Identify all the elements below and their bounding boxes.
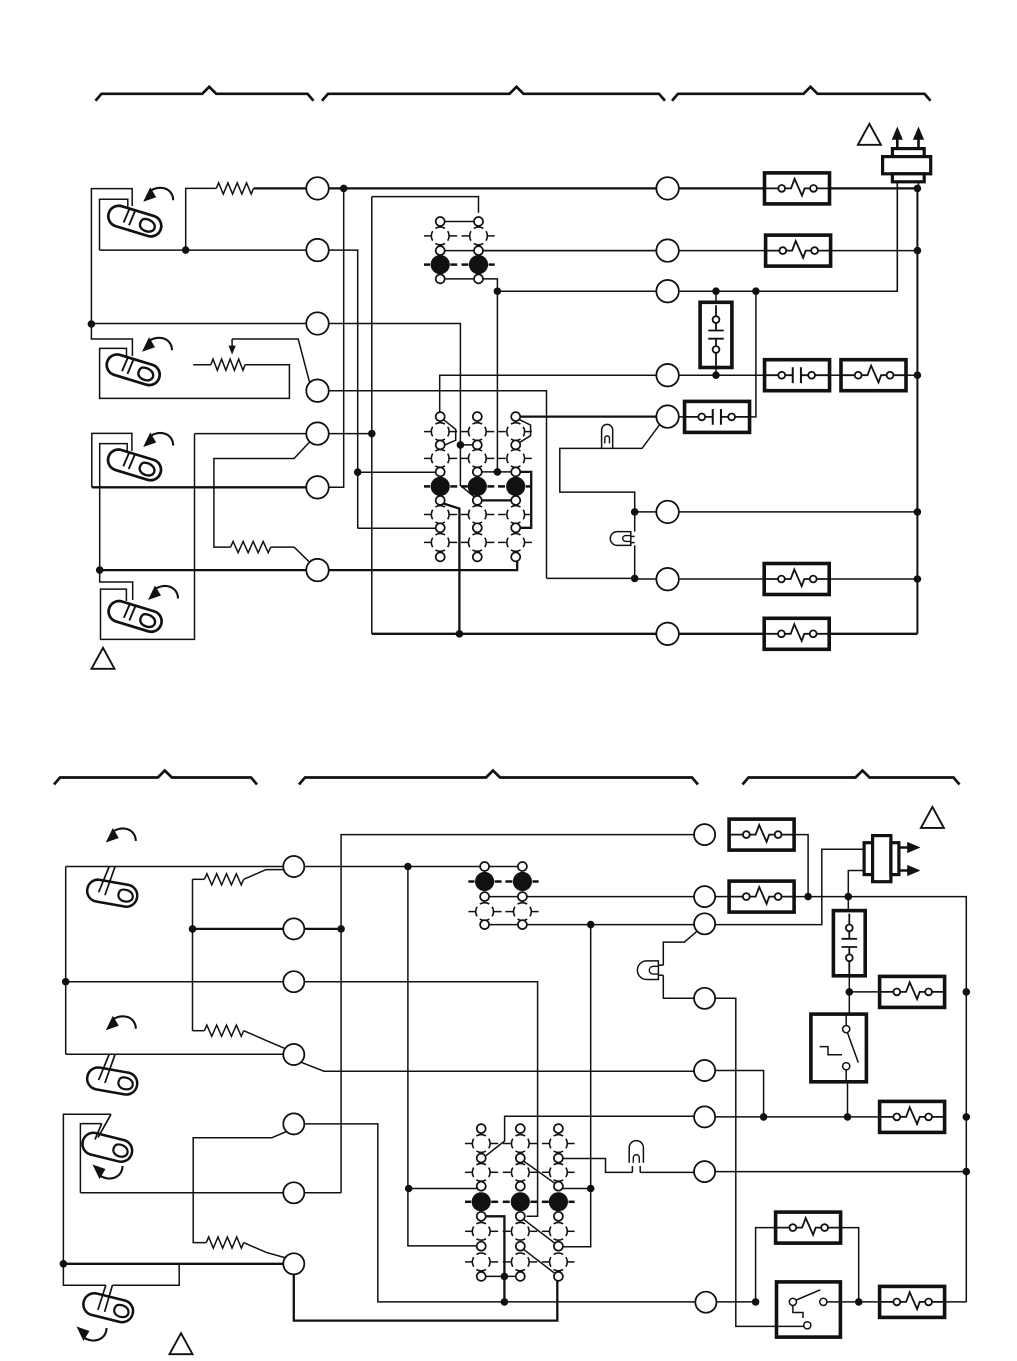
position bar row 3 [424, 485, 430, 488]
resistor heat anticipator (bottom) [193, 878, 205, 880]
triangle note 2 (top right) [858, 124, 881, 145]
wire BT7 riser down and over to c3 small6 [294, 1274, 558, 1320]
open contact (dashed, bottom) [472, 1163, 490, 1181]
arrow MS1 rotation [149, 188, 173, 201]
wire RT3 row to transformer lead [497, 290, 656, 292]
position bar row 4 [424, 514, 431, 516]
terminal BT6 [283, 1182, 304, 1203]
open contact (dashed) [507, 534, 525, 552]
open contact (dashed) [431, 450, 449, 468]
wire box5 right down to BT8 row [841, 1228, 859, 1302]
wire c2 small3 to c3 small3 [477, 471, 515, 473]
wire R circuit: T1 row from resistor to RT1 and on to transformer junction [254, 187, 307, 189]
diag arm c2 small2 to c3 small3 [524, 1161, 557, 1184]
wire changeover box to RTB6 row [847, 1082, 849, 1117]
terminal RT3 [656, 280, 678, 302]
wire BT1 row (mercury switch B1 to terminal and wafer) [66, 866, 284, 868]
wire cap box right side up to RT3 row [750, 291, 756, 417]
wire resistor diag to BT7 [244, 1243, 285, 1258]
wire riser from BT1 dot to c1 small3 and c1 small5 [408, 867, 477, 1246]
wire RT4 row left end down into c1 small1 [440, 375, 657, 416]
wire anticipator riser [192, 879, 194, 1030]
brace group 5 (subbase section, bottom) [299, 771, 698, 785]
junction dot RT6 row left [631, 509, 638, 516]
junction dot RTB2 row at transformer lead [845, 893, 852, 900]
potentiometer heat anticipator adjust (top) [211, 359, 245, 370]
position bar row 1 [424, 431, 431, 433]
junction dot heat relay row (bottom) [846, 989, 853, 996]
mercury switch MSB3 electrode slash outer [98, 1114, 111, 1137]
wire RTB3 arm to pilot lamp LB3 [663, 931, 697, 965]
fan switch B: small row 1 on BT1 line [480, 862, 489, 871]
junction dot RTB6 row at RTB5 branch [760, 1114, 767, 1121]
terminal RTB5 [694, 1060, 715, 1081]
terminal BT8 [695, 1292, 716, 1313]
wire RT6 row [635, 511, 657, 513]
junction dot cool wafer small3 row [494, 469, 501, 476]
mercury bulb MSB1 [85, 878, 138, 908]
open contact (dashed) [507, 423, 525, 441]
relay box on RT2 row [766, 235, 831, 266]
wire BT6 row [80, 1192, 283, 1194]
fan switch B: open position row [468, 911, 475, 913]
junction dot RT4 row relay bottom [713, 372, 720, 379]
wire RT5 to cap box [679, 416, 685, 418]
wire BT8 row [504, 1301, 695, 1303]
bracket c3 small3 to c3 small5 (heavy) [516, 472, 532, 528]
junction dot RT1 right rail [914, 185, 921, 192]
junction dot T5 row [369, 430, 376, 437]
mercury switch MS2 inner electrode wire [100, 348, 290, 398]
pilot lamp L1 (top) [602, 424, 613, 443]
pot wiper arrow [231, 339, 233, 349]
wire relay box bottom to junction [848, 976, 850, 992]
wire c1 small4 to small6 junction riser (heavy) [481, 1216, 504, 1302]
terminal RTB1 [694, 824, 715, 845]
relay box 5 (above bottom changeover) [776, 1212, 841, 1243]
brace group 1 (thermostat section, top) [96, 87, 314, 101]
mercury switch MSB1 electrode slashes [99, 867, 110, 893]
terminal RT1 [656, 177, 678, 199]
terminal T4 [306, 380, 328, 402]
mercury bulb MS4 [106, 598, 164, 634]
mercury switch MSB4 electrode slash 2 [105, 1285, 113, 1312]
wire riser to c3 small5 bracket [563, 925, 591, 1247]
junction dot RT8 row at c1 small4 branch [456, 631, 463, 638]
arrow MSB4 rotation (below) [83, 1328, 107, 1341]
transformer TRB leads [848, 871, 864, 911]
junction dot RTB3 row riser [587, 921, 594, 928]
open contact (dashed, bottom) [511, 1163, 529, 1181]
wire T6 heat wire up-left rail to T1 junction [92, 486, 306, 488]
open contact (dashed, bottom) [550, 1163, 568, 1181]
position bar row 4 (bottom) [465, 1230, 472, 1232]
mercury switch MS1 outer electrode wire [91, 189, 132, 325]
wire lamp L2 to RT7 row [634, 512, 636, 532]
terminal RT7 [656, 568, 678, 590]
wire c2 small4 to c3 small4 (heavy) [477, 499, 515, 501]
wire T4 feed to RT7 row [547, 577, 635, 579]
closed contact (filled, bottom) [472, 1192, 491, 1211]
open contact (dashed) [468, 506, 486, 524]
terminal RT2 [656, 239, 678, 261]
junction dot RT2 right rail [914, 247, 921, 254]
wire corner to c1 small5 [358, 527, 436, 529]
fan switch wafer: small contact row 2 wired to RT2 [440, 250, 656, 252]
brace group 2 (subbase section, top) [322, 87, 665, 101]
transformer TRB (bottom) [864, 836, 899, 882]
position bar row 2 (bottom) [465, 1171, 472, 1173]
junction dot BT1 row riser [405, 863, 412, 870]
fan switch B: filled position row [468, 880, 474, 883]
open contact (dashed, bottom) [472, 1253, 490, 1271]
brace group 6 (system section, bottom) [743, 771, 960, 785]
wire BT8 row right of box to relay box 6 [840, 1301, 880, 1303]
transformer TR1 (24V, top) [883, 149, 931, 182]
junction dot RT6 at right rail [914, 509, 921, 516]
closed contact (filled) [431, 477, 450, 496]
terminal RT4 [656, 364, 678, 386]
relay box right of relay (bottom) [849, 991, 880, 993]
pilot lamp L2 (top, sideways) [610, 532, 631, 546]
open contact (dashed) [431, 534, 449, 552]
open contact (dashed) [431, 423, 449, 441]
brace group 4 (thermostat section, bottom) [54, 771, 257, 785]
junction dot left rail at BT3 [62, 978, 69, 985]
terminal T7 [306, 559, 328, 581]
position bar row 2 [424, 457, 431, 459]
fan switch wafer: small contact row 1 [440, 221, 478, 223]
terminal BT5 [283, 1113, 304, 1134]
fan switch B: small row 3 wired to RTB3 row [485, 924, 591, 926]
junction dot BT8 row at riser [501, 1299, 508, 1306]
open contact (dashed, bottom) [550, 1135, 568, 1153]
wire BT5 row right riser [304, 1124, 504, 1302]
terminal RT8 [656, 623, 678, 645]
mercury switch MS4 inner electrode wire [101, 434, 195, 640]
mercury switch MS4 electrode wire from T7 junction [100, 570, 133, 600]
diag arm c2 small4 to c3 small5 [524, 1219, 557, 1244]
arrow MS3 rotation [149, 433, 173, 446]
terminal BT4 [283, 1044, 304, 1065]
open contact (dashed, bottom) [550, 1222, 568, 1240]
contact box on RT4 row (o-||-o) [765, 360, 830, 391]
wire RTB6 row to relay box 4 [715, 1116, 880, 1118]
mercury switch MSB3 outer electrode wire [63, 1114, 111, 1264]
wire lamp LB3 to RTB4 [663, 975, 694, 998]
wire BT4 diag to RTB5 row [301, 1062, 694, 1071]
wire c1 small6 to c2 small6 [481, 1275, 520, 1277]
mercury switch MSB4 electrode wire right [112, 1264, 179, 1285]
fan switch B: small row 2 wired to RTB2 [485, 896, 694, 898]
wire riser BT2/BT6 to RTB1 row [341, 835, 694, 1193]
brace group 3 (system section, top) [672, 87, 931, 101]
wire branch to c1 small3 [358, 471, 436, 473]
terminal circle overlays (redraw above wires) [306, 177, 328, 199]
terminal BT7 [283, 1253, 304, 1274]
relay box 6 (bottom right) [880, 1286, 945, 1317]
wire BT3 row to c2 small4 riser [66, 981, 284, 983]
wire riser from RT3 elbow down to cool wafer row small3 [496, 291, 498, 472]
junction dot BT8 row at box5 right [855, 1299, 862, 1306]
arrow MSB2 rotation [112, 1016, 136, 1029]
open contact (dashed) [468, 450, 486, 468]
wire BT7 row (heavy) [63, 1263, 283, 1265]
terminal T3 [306, 312, 328, 334]
mercury bulb MSB3 [80, 1131, 134, 1165]
wire BT5 arm and riser to BT8 row [193, 1132, 286, 1243]
resistor cool anticipator (top) [231, 542, 271, 553]
wire branch to c1 small3 [409, 1188, 477, 1190]
wire c3 small3 to riser dot [563, 1188, 591, 1190]
relay contact box vertical (bottom) [833, 911, 865, 976]
wire RTB4 to bottom changeover box [715, 998, 776, 1326]
terminal RTB7 [694, 1161, 715, 1182]
open contact (dashed, bottom) [511, 1253, 529, 1271]
wire vertical fan feed x=371.8 [371, 197, 373, 434]
triangle note 3 (bottom centre) [170, 1333, 193, 1354]
junction dot RT3 row left end [494, 288, 501, 295]
wire T4 row to fan-switch feed corner [329, 391, 547, 579]
junction dot RT3 row relay branch [713, 288, 720, 295]
transformer TR1 leads down [896, 182, 898, 291]
mercury switch MSB3 electrode slash inner [95, 1124, 102, 1140]
relay box on RT1 row (heat) [765, 173, 830, 204]
junction dot BT8 row at box5 left [752, 1299, 759, 1306]
wire RT4 row segments [679, 374, 765, 376]
changeover switch box (bottom-most) [777, 1282, 841, 1337]
terminal T5 [306, 422, 328, 444]
wire T2 riser to fan wafer contacts [329, 250, 358, 528]
wire box6 to right rail corner [944, 1301, 966, 1303]
wire T5 row and riser to RT8 row [195, 433, 307, 435]
wire MS1 to T2 with anticipator branch [100, 249, 307, 251]
junction dot anticipator branch [182, 247, 189, 254]
junction dot BT2 row left [189, 926, 196, 933]
terminal RTB6 [694, 1106, 715, 1127]
terminal BT2 [283, 918, 304, 939]
arrow MS2 rotation [148, 338, 172, 351]
junction dot T2 riser to c1 small3 [354, 469, 361, 476]
wire BT4 row [66, 1053, 284, 1055]
triangle note 4 (bottom right) [921, 807, 944, 828]
junction dot small6 row [501, 1273, 508, 1280]
relay box RTB1 row [729, 819, 794, 850]
junction dot T7 left [96, 567, 103, 574]
relay box on RT7 row [764, 564, 829, 595]
arrow MSB1 rotation [112, 828, 136, 841]
resistor cool anticipator 3 (bottom) [206, 1237, 243, 1248]
position bar row 1 (bottom) [465, 1143, 472, 1145]
terminal RTB3 [694, 913, 715, 934]
relay box RTB2 row [715, 896, 730, 898]
system switch: c1 small1 bypass arm to c1 small2 [444, 420, 456, 445]
open contact (dashed, bottom) [472, 1222, 490, 1240]
junction dot left rail at T3 [88, 321, 95, 328]
junction dot BT7 row left [60, 1261, 67, 1268]
system switch: c3 small1 bypass arm to c3 small2 [520, 420, 531, 443]
terminal T2 [306, 239, 328, 261]
mercury bulb MS2 [104, 351, 162, 387]
mercury switch MS3 inner electrode wire [100, 444, 128, 570]
mercury switch MSB2 electrode slashes [99, 1054, 110, 1080]
terminal RT5 [656, 405, 678, 427]
closed contact (filled, bottom) [511, 1192, 530, 1211]
position bar row 5 [424, 541, 431, 543]
junction dot RT4 right rail [914, 372, 921, 379]
junction dot right rail RTB7 row [963, 1168, 970, 1175]
closed contact (filled, bottom) [549, 1192, 568, 1211]
open contact (dashed, bottom) [511, 1135, 529, 1153]
changeover switch box (bottom middle) [848, 992, 850, 1014]
position bar row 3 (bottom) [465, 1201, 471, 1204]
wire pot wiper to T4 switch arm [232, 339, 310, 383]
wire RTB3 row to transformer lead [591, 924, 694, 926]
wire RT5 arm to pilot lamp and RT6 branch [560, 425, 660, 512]
junction dot c3 small3 riser [587, 1185, 594, 1192]
open contact (dashed) [468, 423, 486, 441]
resistor heat anticipator (top) [216, 183, 253, 194]
fan switch wafer: position row 1 (open) [424, 235, 431, 237]
wire fan feed to upper wafer c2 small1 [372, 197, 479, 213]
wire RTB6 row to c1 small2 arm [486, 1116, 694, 1155]
pilot lamp LB2 (bottom, upright) [629, 1141, 643, 1163]
terminal RTB4 [694, 988, 715, 1009]
mercury switch MSB3 inner electrode wire [80, 1124, 101, 1193]
junction dot RTB6 row at changeover [844, 1114, 851, 1121]
wire RTB5 to RTB6 row [715, 1071, 764, 1117]
terminal BT3 [283, 971, 304, 992]
closed contact (filled) [468, 477, 487, 496]
resistor cool anticipator 2 (bottom) [193, 1030, 205, 1032]
wire resistor to T7 arm [271, 547, 310, 562]
wire BT2 row (heavy) [193, 928, 284, 930]
relay box on RTB6 row [880, 1101, 945, 1132]
wire resistor diag to BT1 [244, 870, 285, 880]
diag arm c2 small5 to c3 small6 [524, 1249, 557, 1274]
mercury bulb MS3 [105, 446, 163, 482]
wire c3 small2 step to pilot lamp and RTB7 [563, 1159, 633, 1173]
junction dot T3 riser to c2 small2 [457, 442, 464, 449]
mercury switch MSB4 electrode wire [63, 1264, 105, 1285]
junction dot T1/T6 rail [340, 185, 347, 192]
junction dot BT2 row right on riser to RTB1 [338, 926, 345, 933]
open contact (dashed, bottom) [511, 1222, 529, 1240]
junction dot right rail RTB6 row [963, 1114, 970, 1121]
terminal RT6 [656, 501, 678, 523]
wire RTB1 box to dot on RTB2 row [794, 835, 809, 897]
wire right rail R (top diagram) [916, 188, 918, 633]
wire branch up to heat anticipator resistor [186, 188, 217, 250]
mercury bulb MSB4 [81, 1291, 135, 1325]
junction dot RT3 row cap branch [753, 288, 760, 295]
wire c3 small1 to RT5 [520, 415, 656, 417]
wire RT2 row [483, 250, 656, 252]
closed contact (filled) [506, 477, 525, 496]
junction dot RTB2 row at box1 branch [805, 893, 812, 900]
wire T5 arm resistor branch [214, 442, 310, 547]
triangle note 1 (bottom of thermostat, top diagram) [92, 648, 115, 669]
terminal BT1 [283, 856, 304, 877]
arrow MSB3 rotation (below) [99, 1166, 123, 1179]
junction dot right rail at relay row [963, 989, 970, 996]
wire branch to c2 small2 [460, 444, 477, 446]
terminal RTB2 [694, 886, 715, 907]
fan switch wafer: small contact row 3 with elbow to RT3 row [440, 278, 478, 280]
relay W1 vertical contact box [715, 291, 717, 302]
junction dot c1 small3 branch [405, 1185, 412, 1192]
wire lamp to RTB7 [640, 1171, 694, 1173]
fan switch wafer: position row 2 (closed, filled) [424, 263, 430, 266]
position bar row 5 (bottom) [465, 1261, 472, 1263]
contact box on RT5 row (o-||-o) [685, 401, 750, 432]
relay box on RT4 row (right) [841, 360, 906, 391]
mercury switch MS1 inner electrode wire [100, 199, 128, 250]
wire RT7 row [635, 578, 657, 580]
terminal T1 [306, 177, 328, 199]
junction dot RT7 at right rail [914, 576, 921, 583]
open contact (dashed) [431, 506, 449, 524]
open contact (dashed) [507, 450, 525, 468]
wire T3 to system-switch wafer c2 small4 [329, 324, 476, 499]
open contact (dashed) [468, 534, 486, 552]
mercury bulb MSB2 [85, 1066, 138, 1096]
pilot lamp LB3 (sideways) [637, 961, 658, 980]
wire RTB2 row to right rail [794, 897, 967, 1303]
wire T7 row from MS3/MS4 junction [100, 569, 307, 571]
mercury switch MS2 outer electrode wire [91, 324, 132, 356]
wire resistor diag to BT4 [244, 1031, 285, 1049]
mercury bulb MS1 [106, 203, 164, 239]
wire RT8 row to terminal RT8 [459, 633, 656, 635]
terminal T6 [306, 476, 328, 498]
wire box5 left down to BT8 row [756, 1228, 776, 1302]
mercury switch MS3 outer electrode wire [92, 433, 132, 487]
mercury switch MSB4 electrode slash 1 [98, 1285, 106, 1310]
junction dot RT7 row left [631, 575, 638, 582]
wire T3 from left rail dot [91, 323, 306, 325]
relay box on RT8 row [764, 618, 829, 649]
open contact (dashed, bottom) [472, 1135, 490, 1153]
wire c1 small4 arm down to RT8 row [444, 504, 460, 634]
wire RTB7 row to right rail [715, 1171, 966, 1173]
open contact (dashed) [507, 506, 525, 524]
wire T7 row right to cool wafer c3 small6 [329, 561, 518, 570]
wire left rail bottom diagram [65, 867, 67, 1055]
arrow MS4 rotation [154, 586, 178, 599]
open contact (dashed, bottom) [550, 1253, 568, 1271]
